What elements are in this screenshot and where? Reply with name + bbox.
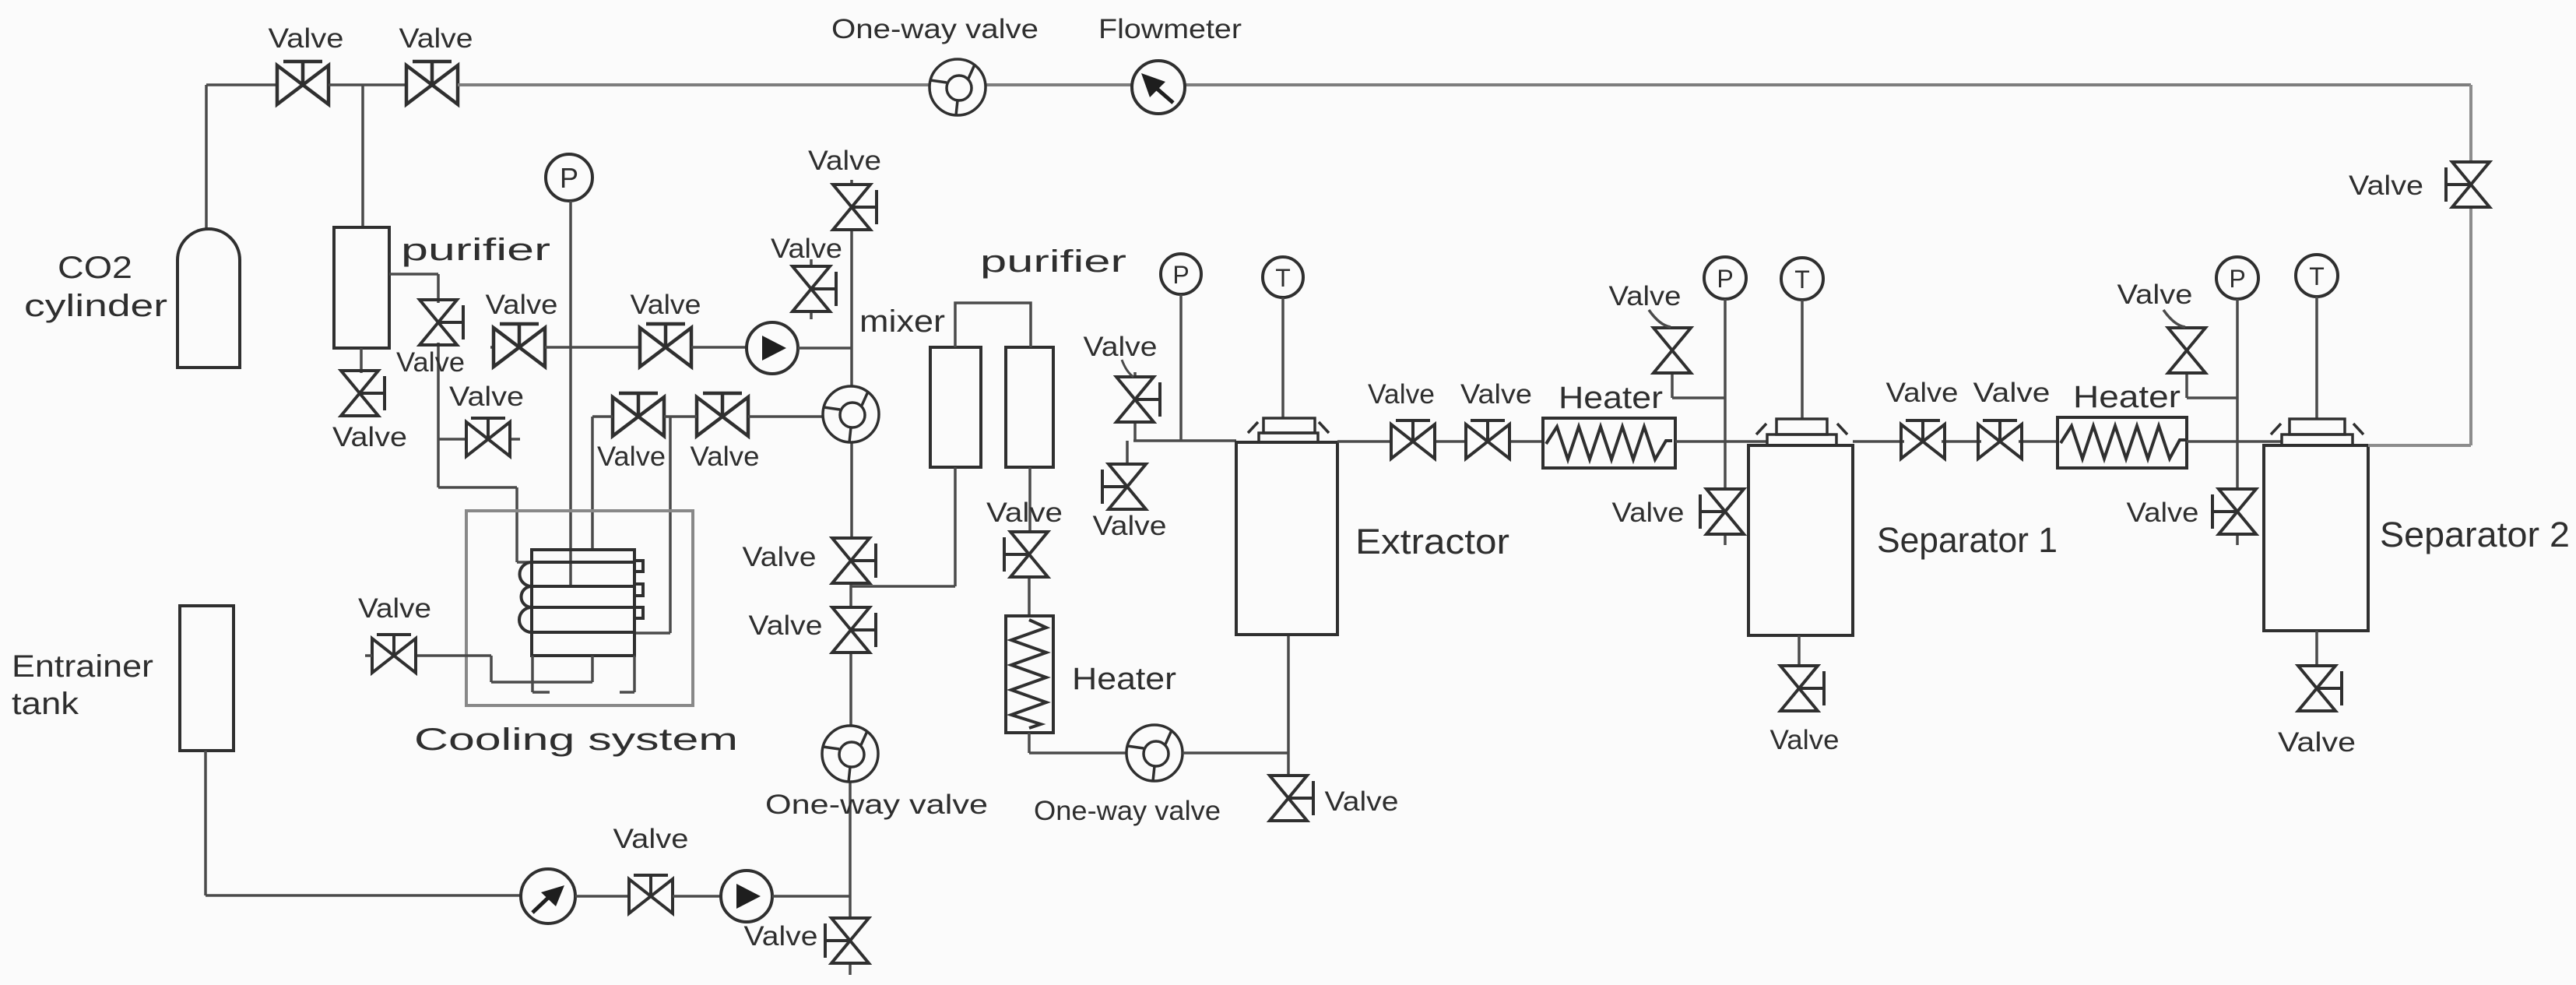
purifier vessel column A (middle) <box>930 347 981 467</box>
wire gauge P separator2 stem <box>2236 299 2239 490</box>
svg-text:One-way valve: One-way valve <box>1034 796 1221 826</box>
svg-text:Valve: Valve <box>1084 332 1158 362</box>
label Entrainer tank <box>12 649 153 721</box>
wire separator1 bottom drain <box>1798 635 1801 667</box>
valve separator1 inlet branch <box>1653 328 1725 398</box>
svg-text:cylinder: cylinder <box>24 289 167 323</box>
svg-text:tank: tank <box>12 687 79 721</box>
svg-text:Valve: Valve <box>269 23 344 54</box>
valve on purifier outlet drop <box>420 300 463 345</box>
wire one-way valve to extractor bottom <box>1183 635 1288 776</box>
valve vent mid-left <box>466 418 510 456</box>
svg-text:Valve: Valve <box>449 382 524 412</box>
svg-text:mixer: mixer <box>859 304 945 339</box>
svg-text:Valve: Valve <box>986 498 1063 528</box>
svg-text:Valve: Valve <box>613 824 689 854</box>
wire gauge T separator1 stem <box>1801 300 1804 419</box>
wire separator2 bottom drain <box>2315 631 2318 667</box>
svg-text:T: T <box>2309 262 2325 290</box>
CO2 cylinder vessel <box>177 229 240 368</box>
valve extractor bottom drain <box>1270 776 1313 821</box>
wire drop from top line junction to purifier <box>361 85 364 227</box>
wire heater out to one-way valve <box>1029 733 1126 753</box>
wire branch stub to vent valve <box>438 438 520 441</box>
valve extractor vent upper <box>1116 372 1160 441</box>
svg-text:Valve: Valve <box>1368 379 1435 410</box>
svg-text:Heater: Heater <box>1559 381 1663 415</box>
valve extractor vent lower <box>1102 441 1146 509</box>
svg-text:Valve: Valve <box>744 921 818 952</box>
wire separator1 outlet to heater2 <box>1853 440 2058 443</box>
svg-text:Valve: Valve <box>2278 727 2356 758</box>
one-way valve on top line <box>930 59 986 115</box>
wire bottom valve to pump2 <box>673 895 721 898</box>
svg-text:Valve: Valve <box>1609 281 1682 311</box>
gauge T extractor <box>1263 257 1303 297</box>
svg-text:One-way valve: One-way valve <box>765 790 988 820</box>
valve V6 over cooling <box>697 393 748 436</box>
valve column V7 <box>832 538 876 583</box>
svg-text:Flowmeter: Flowmeter <box>1098 14 1242 44</box>
gauge P1 <box>546 154 592 201</box>
wire stub left of cooling valve <box>365 654 372 657</box>
svg-text:Valve: Valve <box>1325 786 1399 817</box>
heater horizontal 1 <box>1543 418 1675 468</box>
wire V5 drop into coil <box>591 417 594 550</box>
wire pump1 to mixer column <box>798 347 852 350</box>
valve right return top <box>2446 162 2490 207</box>
wire gauge T extractor stem <box>1281 297 1284 418</box>
wire purifier right outlet to cooling system <box>389 274 532 562</box>
valve separator1 outlet 1 <box>1901 420 1945 459</box>
wire right return line down to separator2 <box>2368 85 2471 445</box>
svg-text:Valve: Valve <box>2349 171 2423 201</box>
valve V3 mid row <box>494 324 545 367</box>
valve on P column separator2 <box>2212 489 2256 545</box>
svg-text:Valve: Valve <box>2117 280 2193 310</box>
valve purifier drain <box>341 371 385 416</box>
wire mixer column <box>850 180 852 975</box>
wire gauge P extractor stem <box>1179 294 1183 441</box>
wire gauge to bottom valve <box>575 895 629 898</box>
svg-text:P: P <box>1172 261 1189 289</box>
wire CO2 cylinder riser <box>205 85 208 229</box>
svg-text:Separator 2: Separator 2 <box>2380 515 2570 554</box>
extractor lid <box>1248 418 1329 442</box>
svg-text:Valve: Valve <box>749 610 823 641</box>
wire pump2 to column junction <box>772 895 850 898</box>
wire V3 to V4 <box>545 346 640 349</box>
wire purifier bridge <box>955 303 1031 347</box>
wire extractor inlet line <box>1133 439 1236 442</box>
svg-text:Heater: Heater <box>2073 380 2181 414</box>
valve extractor outlet 1 <box>1391 420 1435 459</box>
svg-text:Valve: Valve <box>771 234 842 264</box>
valve separator2 inlet branch <box>2168 328 2237 398</box>
label valve separator1 inlet branch with leader <box>1609 281 1682 327</box>
valve column V8 <box>832 607 876 653</box>
svg-text:Valve: Valve <box>1093 511 1167 541</box>
valve separator2 drain <box>2298 666 2342 711</box>
heater vertical (middle) <box>1006 616 1053 733</box>
wire between top valves <box>329 83 406 86</box>
valve above middle heater <box>1004 532 1048 577</box>
wire gauge T separator2 stem <box>2315 297 2318 419</box>
svg-text:P: P <box>1717 265 1733 293</box>
valve on P column separator1 <box>1700 489 1744 545</box>
valve column bottom drain <box>825 918 869 963</box>
purifier vessel column B (middle) <box>1006 347 1053 467</box>
wire coil bottom drains <box>417 656 634 692</box>
svg-text:Extractor: Extractor <box>1355 522 1509 561</box>
svg-text:Valve: Valve <box>358 593 431 624</box>
gauge P extractor <box>1161 254 1201 294</box>
wire valves V5 V6 connections <box>592 415 823 418</box>
svg-text:Valve: Valve <box>1612 498 1685 528</box>
gauge T separator1 <box>1781 258 1823 300</box>
svg-text:P: P <box>560 162 578 194</box>
separator2 lid <box>2271 419 2363 445</box>
valve cooling left <box>372 635 416 673</box>
valve V4 mid row <box>640 324 691 367</box>
label valve separator2 inlet branch with leader <box>2117 280 2193 327</box>
wire gauge P separator1 stem <box>1724 299 1727 490</box>
svg-text:Valve: Valve <box>486 290 558 320</box>
svg-text:purifier: purifier <box>980 244 1126 279</box>
pump P-2 bottom <box>721 871 772 922</box>
cooling coil block <box>519 550 643 656</box>
purifier vessel (left) <box>334 227 389 348</box>
wire purifier B down to heater <box>1029 467 1030 616</box>
svg-text:One-way valve: One-way valve <box>831 14 1038 44</box>
svg-text:Valve: Valve <box>1460 379 1532 410</box>
svg-text:CO2: CO2 <box>58 251 132 285</box>
svg-text:Valve: Valve <box>332 422 407 452</box>
separator2 vessel <box>2264 445 2368 631</box>
wire V4 to pump1 <box>691 346 747 349</box>
wire extractor outlet to heater <box>1337 440 1543 443</box>
valve V2 top-left <box>406 62 458 104</box>
valve separator1 outlet 2 <box>1978 420 2022 459</box>
gauge T separator2 <box>2296 255 2338 297</box>
svg-text:Valve: Valve <box>1770 725 1840 755</box>
svg-text:P: P <box>2229 265 2245 293</box>
svg-text:T: T <box>1794 266 1810 294</box>
valve offset left of column <box>792 259 836 319</box>
one-way valve before extractor <box>1126 725 1183 781</box>
svg-text:Valve: Valve <box>1886 378 1959 408</box>
svg-text:Valve: Valve <box>396 347 465 378</box>
svg-text:Valve: Valve <box>1973 378 2051 408</box>
wire heater2 to separator2 <box>2187 440 2282 443</box>
svg-text:Entrainer: Entrainer <box>12 649 153 684</box>
entrainer tank vessel <box>180 606 234 751</box>
svg-text:Heater: Heater <box>1072 662 1176 696</box>
valve mixer column top <box>833 185 877 230</box>
wire heater1 to separator1 <box>1675 440 1767 443</box>
pump P-1 <box>747 322 798 374</box>
wire purifier drain stub <box>360 348 363 373</box>
heater horizontal 2 <box>2058 417 2187 468</box>
svg-text:Valve: Valve <box>808 146 881 176</box>
one-way valve lower column <box>822 726 878 782</box>
cooling system outer box <box>466 511 693 705</box>
svg-text:Valve: Valve <box>399 23 473 54</box>
separator1 vessel <box>1748 445 1853 635</box>
valve V5 over cooling <box>613 393 664 436</box>
svg-text:Valve: Valve <box>743 542 817 572</box>
svg-text:Valve: Valve <box>597 441 666 472</box>
valve bottom line <box>629 875 673 913</box>
svg-text:purifier: purifier <box>401 233 550 267</box>
valve V1 top-left <box>277 62 329 104</box>
wire stub left of valve V3 <box>490 346 494 349</box>
wire gauge P1 stem into cooling coil <box>569 201 572 586</box>
wire long top line to right side <box>458 83 2471 86</box>
label CO2 cylinder <box>24 251 167 323</box>
svg-text:T: T <box>1275 264 1291 292</box>
wire top-left horizontal from CO2 cylinder riser to first valve <box>206 83 277 86</box>
gauge bottom with arrow <box>521 869 575 923</box>
mixer rotary symbol <box>823 386 879 442</box>
extractor vessel <box>1236 442 1337 635</box>
wire entrainer tank to bottom line <box>206 751 521 895</box>
svg-text:Valve: Valve <box>631 290 701 320</box>
wire purifier A drain to column <box>851 467 955 586</box>
svg-text:Cooling system: Cooling system <box>414 723 738 757</box>
separator1 lid <box>1756 419 1847 445</box>
flowmeter on top line <box>1132 61 1185 114</box>
svg-text:Valve: Valve <box>2127 498 2199 528</box>
svg-text:Valve: Valve <box>691 441 760 472</box>
wire V6 junction drop into coil right <box>634 417 670 633</box>
valve extractor outlet 2 <box>1466 420 1509 459</box>
svg-text:Separator 1: Separator 1 <box>1877 520 2058 560</box>
valve separator1 drain <box>1780 666 1824 711</box>
label valve extractor vent upper with leader <box>1084 332 1158 377</box>
gauge P separator2 <box>2216 257 2258 299</box>
gauge P separator1 <box>1704 257 1746 299</box>
